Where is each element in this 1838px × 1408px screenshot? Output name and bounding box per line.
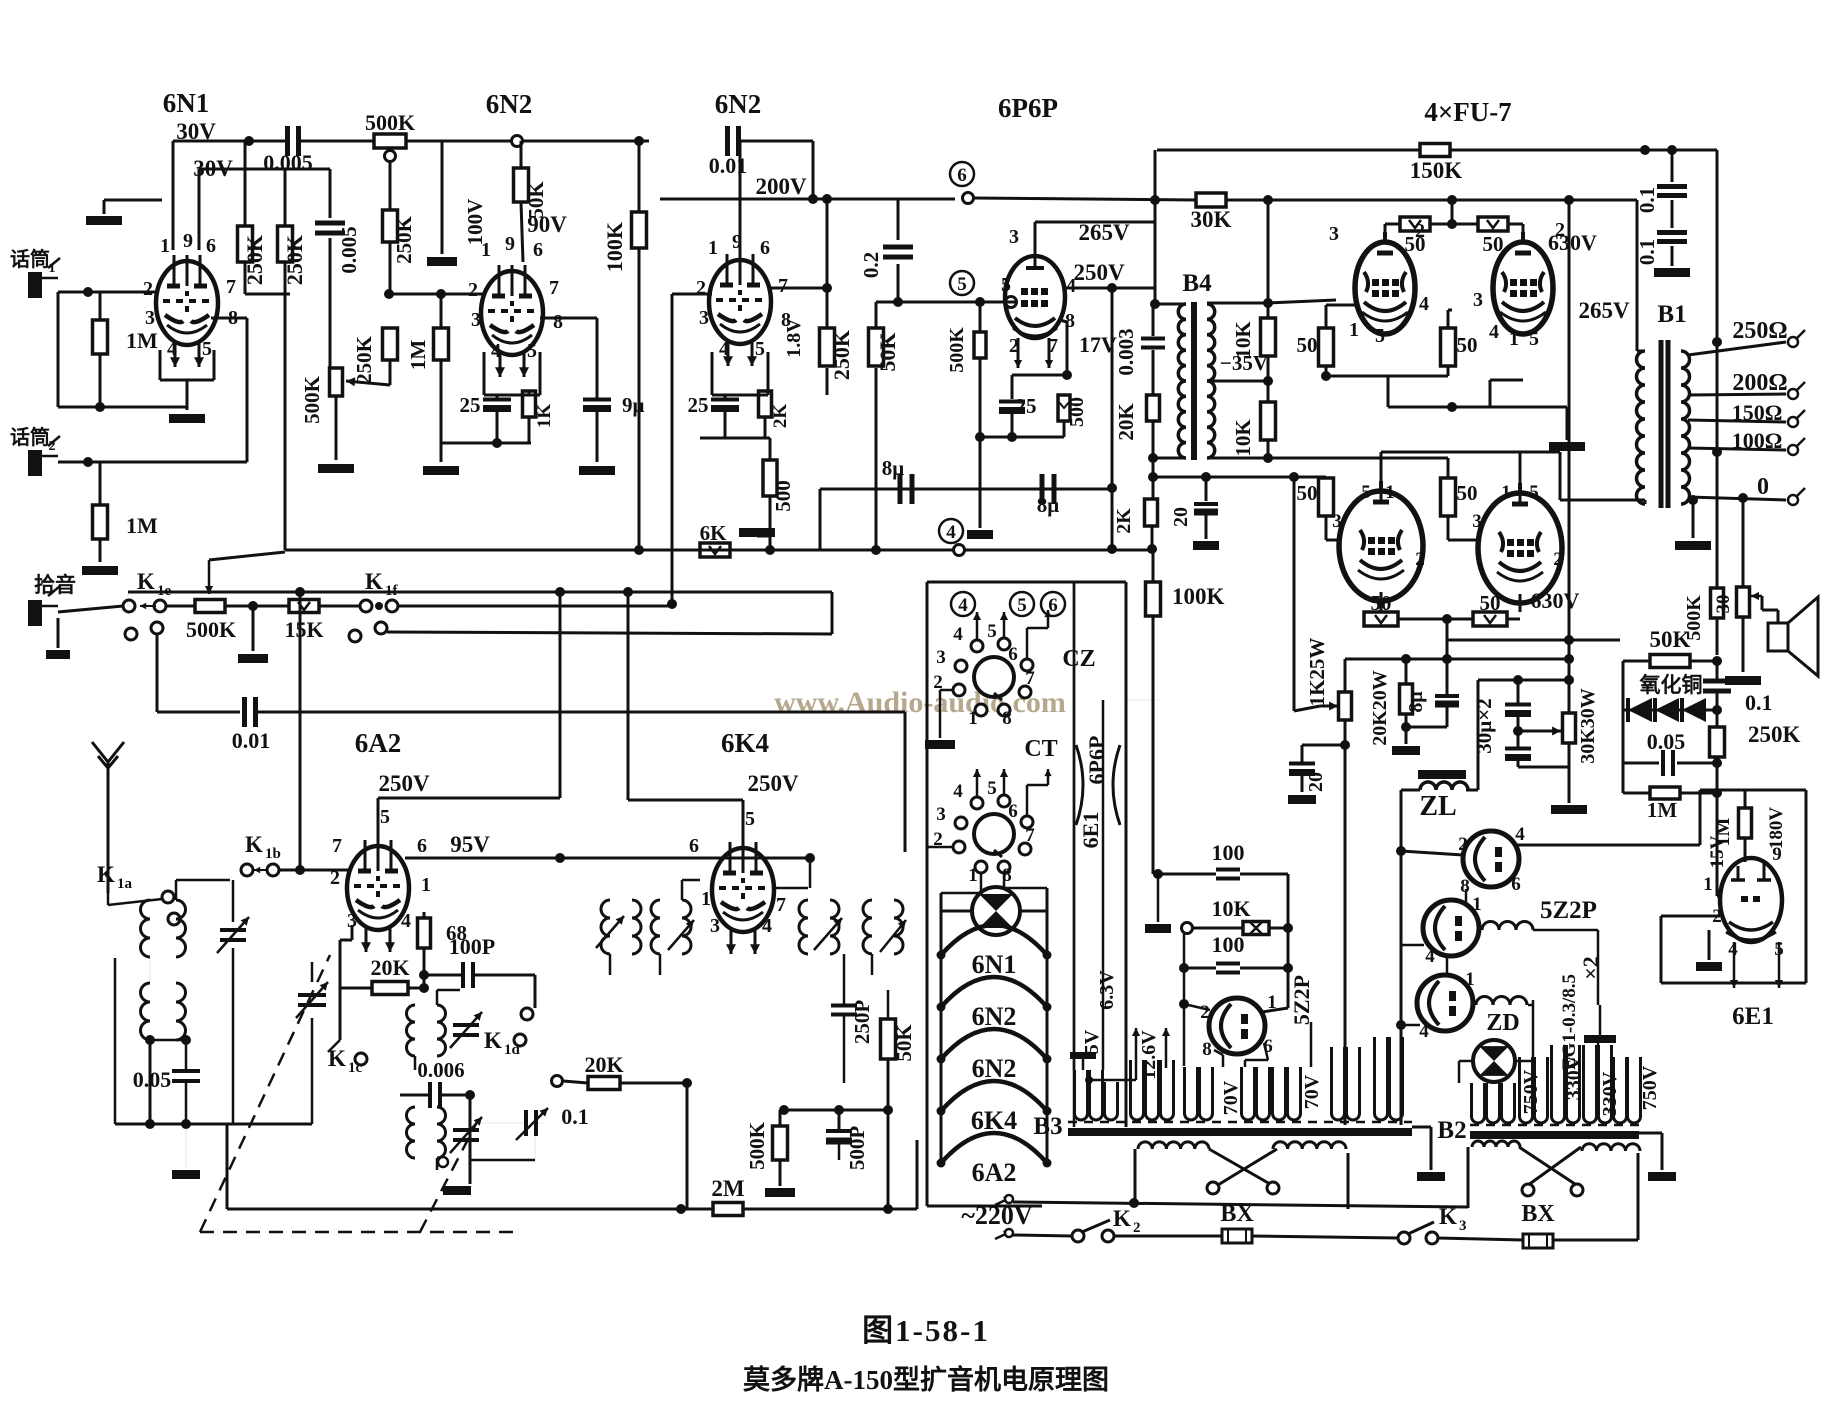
wire left rail feedback	[1622, 661, 1625, 793]
svg-text:10K: 10K	[1231, 419, 1255, 457]
resistor 250K first anode load	[238, 226, 253, 262]
svg-text:0.05: 0.05	[1647, 729, 1686, 754]
switch K1f lower	[349, 630, 361, 642]
svg-text:K: K	[365, 569, 383, 594]
svg-text:2: 2	[1133, 1220, 1141, 1236]
svg-text:1: 1	[160, 235, 170, 257]
svg-text:5: 5	[987, 621, 997, 642]
svg-text:5: 5	[202, 338, 212, 360]
svg-text:20K: 20K	[1114, 403, 1138, 441]
svg-text:4×FU-7: 4×FU-7	[1424, 97, 1511, 127]
resistor 250K grid upper	[383, 210, 398, 242]
svg-text:ZL: ZL	[1419, 791, 1456, 822]
svg-text:750V: 750V	[1520, 1069, 1542, 1114]
tube 5Z2P left	[1209, 998, 1265, 1054]
svg-text:3: 3	[1472, 511, 1482, 532]
svg-text:2: 2	[468, 279, 478, 301]
svg-text:0.006: 0.006	[417, 1058, 464, 1082]
ground rf	[226, 1124, 229, 1209]
wire grid 1	[58, 291, 158, 294]
svg-text:7: 7	[1025, 825, 1035, 846]
svg-text:2: 2	[696, 277, 706, 299]
svg-text:5: 5	[527, 340, 537, 362]
svg-text:3: 3	[1329, 223, 1339, 245]
svg-text:1b: 1b	[265, 846, 281, 862]
svg-text:K: K	[97, 862, 115, 887]
osc coil lower	[407, 1107, 416, 1158]
resistor 250K 6N2b plate	[820, 328, 835, 366]
svg-text:−35V: −35V	[1220, 351, 1268, 375]
svg-text:20K: 20K	[370, 955, 409, 980]
wire	[299, 140, 374, 143]
svg-text:5: 5	[987, 778, 997, 799]
antenna coil upper	[141, 900, 151, 957]
svg-text:5: 5	[1529, 328, 1539, 350]
antenna	[107, 762, 110, 805]
capacitor 20	[1302, 744, 1345, 747]
svg-text:6E1: 6E1	[1078, 812, 1103, 849]
svg-text:0.2: 0.2	[859, 252, 883, 278]
svg-text:EG1-0.3/8.5: EG1-0.3/8.5	[1559, 974, 1580, 1070]
svg-text:250K: 250K	[352, 335, 376, 384]
speaker	[1768, 623, 1788, 651]
svg-text:8: 8	[553, 311, 563, 333]
wires 6E1 frame	[1745, 789, 1806, 792]
svg-text:100K: 100K	[602, 222, 627, 272]
svg-text:K: K	[484, 1028, 502, 1053]
svg-text:100K: 100K	[1172, 584, 1225, 609]
svg-text:1.8V: 1.8V	[783, 318, 805, 358]
capacitor 0.1 upper	[1671, 150, 1674, 182]
svg-text:4: 4	[762, 915, 772, 937]
svg-text:0.003: 0.003	[1114, 328, 1138, 375]
resistor 250K	[1710, 727, 1725, 757]
ground 500K pot	[318, 464, 354, 473]
wire plate 6N2b	[770, 287, 827, 290]
svg-text:6: 6	[689, 835, 699, 857]
svg-text:150K: 150K	[1410, 158, 1463, 183]
switch K1e lower + 0.01 cap	[125, 628, 137, 640]
resistor 50 lower-right grid	[1441, 478, 1456, 516]
svg-text:1: 1	[968, 865, 978, 886]
svg-text:100Ω: 100Ω	[1732, 428, 1783, 453]
svg-text:0.1: 0.1	[1745, 690, 1773, 715]
svg-text:30: 30	[1713, 595, 1734, 614]
main tuning cap	[298, 993, 326, 997]
svg-text:100: 100	[1212, 932, 1245, 957]
wire bias rail	[285, 549, 1155, 552]
svg-text:4: 4	[1425, 946, 1435, 967]
svg-text:0.005: 0.005	[263, 150, 313, 175]
resistor 50 cathode lower-left	[1364, 612, 1398, 626]
svg-text:3: 3	[936, 647, 946, 668]
svg-text:4: 4	[719, 338, 729, 360]
socket CZ	[951, 592, 975, 616]
wire 6N1 plate to top rail	[172, 141, 175, 250]
svg-text:1a: 1a	[117, 876, 133, 892]
svg-text:7: 7	[549, 277, 559, 299]
svg-text:3: 3	[936, 804, 946, 825]
svg-text:200Ω: 200Ω	[1732, 370, 1787, 396]
ground B1 secondary	[1692, 500, 1695, 538]
dashed gang lines	[200, 955, 330, 1232]
svg-text:500K: 500K	[300, 375, 324, 424]
svg-text:4: 4	[1066, 275, 1076, 297]
resistor 50 cathode upper-right	[1441, 328, 1456, 366]
resistor 150K	[1420, 144, 1450, 157]
choke ZL	[1418, 770, 1466, 779]
wire grid 6N2b	[672, 293, 712, 296]
tube 5Z2P rect C	[1417, 975, 1473, 1031]
potentiometer 500K level	[330, 368, 343, 396]
svg-text:6: 6	[417, 835, 427, 857]
IF transformer left	[601, 900, 610, 954]
svg-text:5: 5	[755, 338, 765, 360]
resistor 50 grid right	[1478, 217, 1508, 231]
svg-text:250V: 250V	[378, 771, 430, 796]
resistor 500K feedback	[1716, 342, 1719, 588]
svg-text:20: 20	[1170, 507, 1192, 527]
svg-text:0.005: 0.005	[337, 226, 361, 273]
cathode 6N2b 25 2K	[711, 352, 714, 395]
capacitor 0.1 lower	[1671, 200, 1674, 228]
wire 265V to B4	[1034, 222, 1037, 258]
svg-text:5: 5	[1001, 274, 1011, 296]
svg-text:8μ: 8μ	[1405, 691, 1427, 713]
wire heater feeds	[1073, 582, 1076, 1127]
svg-text:50: 50	[1297, 481, 1318, 505]
svg-text:1: 1	[1509, 328, 1519, 350]
svg-text:8: 8	[1202, 1039, 1212, 1060]
svg-text:2: 2	[143, 278, 153, 300]
svg-text:2M: 2M	[711, 1176, 745, 1201]
svg-text:12.6V: 12.6V	[1138, 1030, 1160, 1080]
svg-text:1K: 1K	[534, 404, 555, 429]
svg-text:5: 5	[1361, 482, 1371, 503]
secondary B2 with cross	[1472, 1141, 1520, 1147]
svg-text:5: 5	[957, 274, 967, 295]
svg-text:1: 1	[421, 874, 431, 896]
svg-text:K: K	[245, 832, 263, 857]
svg-text:100: 100	[1212, 840, 1245, 865]
windings B3 primary	[1075, 1070, 1088, 1120]
svg-text:4: 4	[958, 595, 968, 616]
svg-text:180V: 180V	[1766, 807, 1787, 850]
tube 5Z2P rect B	[1423, 900, 1479, 956]
resistor 50 cathode upper-left	[1319, 328, 1334, 366]
svg-text:BX: BX	[1220, 1201, 1254, 1227]
svg-text:6K4: 6K4	[721, 728, 769, 758]
svg-text:1: 1	[1465, 969, 1475, 990]
svg-text:3: 3	[1459, 1218, 1467, 1234]
svg-text:0.1: 0.1	[1635, 187, 1659, 213]
svg-text:话筒: 话筒	[10, 425, 50, 449]
resistor 2K bias	[1145, 499, 1158, 526]
svg-text:6N1: 6N1	[972, 950, 1017, 979]
wire 30V second	[198, 169, 201, 250]
tube FU7 lower right	[1478, 493, 1562, 603]
svg-text:0.1: 0.1	[1635, 239, 1659, 265]
wire 250V riser 6A2	[559, 592, 562, 798]
cathode network 6N2 25 + 1K	[483, 352, 486, 395]
svg-text:1M: 1M	[126, 328, 158, 353]
svg-text:750V: 750V	[1639, 1065, 1661, 1110]
resistor 100K	[632, 212, 647, 248]
svg-text:50K: 50K	[1650, 627, 1691, 652]
capacitor 9u decoupling	[583, 398, 611, 402]
svg-text:9: 9	[183, 230, 193, 252]
svg-text:50K: 50K	[524, 181, 548, 219]
ground 1M	[440, 443, 443, 462]
svg-text:4: 4	[953, 781, 963, 802]
svg-text:6: 6	[957, 165, 967, 186]
wire grid 2	[58, 461, 247, 464]
svg-text:1: 1	[1385, 482, 1395, 503]
tube 6N1	[156, 261, 218, 345]
svg-text:500K: 500K	[365, 110, 415, 135]
svg-text:0.1: 0.1	[561, 1104, 589, 1129]
svg-text:4: 4	[491, 340, 501, 362]
ground shield 6N1	[104, 199, 162, 202]
wire 640 bus	[1446, 640, 1449, 659]
svg-text:100P: 100P	[449, 934, 495, 959]
svg-text:30K30W: 30K30W	[1577, 688, 1599, 764]
wire to 6E1	[1716, 793, 1719, 896]
jack ground 2	[57, 618, 60, 648]
capacitor 0.003	[1152, 304, 1155, 336]
svg-text:4: 4	[401, 910, 411, 932]
wire cathode bus upper	[1326, 375, 1448, 378]
wire B4 secondary bottom	[1207, 457, 1448, 460]
ground CZ	[940, 689, 953, 692]
tube FU7 upper left	[1355, 242, 1415, 334]
svg-text:3: 3	[699, 307, 709, 329]
svg-text:95V: 95V	[450, 832, 490, 857]
svg-text:7: 7	[332, 835, 342, 857]
tube 6E1	[1720, 858, 1782, 942]
svg-text:265V: 265V	[1578, 298, 1630, 323]
ground pot	[252, 606, 255, 651]
svg-text:25: 25	[460, 393, 481, 417]
svg-text:1: 1	[968, 708, 978, 729]
svg-text:5: 5	[1375, 325, 1385, 347]
svg-text:CT: CT	[1024, 736, 1057, 762]
svg-text:500K: 500K	[946, 327, 968, 373]
svg-text:1: 1	[1472, 894, 1482, 915]
svg-text:4: 4	[953, 624, 963, 645]
potentiometer 30	[1742, 498, 1745, 587]
svg-text:K: K	[1113, 1206, 1131, 1231]
svg-text:1: 1	[481, 239, 491, 261]
svg-text:3: 3	[471, 309, 481, 331]
resistor 1M horizontal	[1650, 787, 1680, 799]
svg-text:7: 7	[778, 275, 788, 297]
svg-text:图1-58-1: 图1-58-1	[862, 1313, 990, 1348]
diodes oxide	[1623, 709, 1715, 712]
wire HT to eye	[1514, 844, 1700, 847]
svg-text:1: 1	[701, 888, 711, 910]
svg-text:7: 7	[1025, 668, 1035, 689]
wire B4 to FU7 grids	[1268, 300, 1336, 303]
resistor 1M 6E1	[1739, 808, 1752, 838]
wire plate feed B4	[1154, 150, 1157, 304]
svg-text:6N2: 6N2	[972, 1054, 1017, 1083]
svg-text:4: 4	[946, 522, 956, 543]
svg-text:250V: 250V	[747, 771, 799, 796]
tube 5Z2P rect A	[1463, 831, 1519, 887]
svg-text:6: 6	[1048, 595, 1058, 616]
svg-text:20K: 20K	[584, 1052, 623, 1077]
cathode 6N1	[159, 350, 162, 380]
antenna coil lower	[141, 983, 151, 1040]
svg-text:20: 20	[1305, 772, 1327, 792]
svg-text:9: 9	[732, 231, 742, 253]
svg-text:4: 4	[1489, 321, 1499, 343]
svg-text:250V: 250V	[1073, 260, 1125, 285]
svg-text:6N1: 6N1	[163, 88, 210, 118]
svg-text:6A2: 6A2	[972, 1158, 1017, 1187]
svg-text:氧化铜: 氧化铜	[1640, 673, 1703, 697]
svg-text:B1: B1	[1657, 301, 1686, 328]
svg-text:6: 6	[1511, 874, 1521, 895]
svg-text:2K: 2K	[770, 404, 791, 429]
resistor 30K	[1196, 193, 1226, 207]
svg-text:500K: 500K	[186, 617, 236, 642]
wire screen rail 200V	[973, 198, 1196, 200]
resistor 20K B4	[1147, 395, 1160, 421]
ground top mid	[441, 141, 444, 254]
svg-text:B4: B4	[1182, 270, 1212, 297]
capacitor 0.2 coupling	[897, 199, 900, 240]
tube FU7 lower left	[1339, 491, 1423, 601]
capacitor 20 B4	[1205, 477, 1208, 501]
node 5 circled	[950, 271, 974, 295]
resistor 68	[418, 918, 431, 948]
resistor 1M input 1	[93, 320, 108, 354]
svg-text:8μ: 8μ	[1037, 493, 1060, 517]
wire grid 6N2	[389, 293, 484, 296]
svg-text:K: K	[1439, 1204, 1457, 1229]
svg-text:6N2: 6N2	[715, 89, 762, 119]
svg-text:6K4: 6K4	[971, 1106, 1017, 1135]
ground B2	[1639, 1132, 1662, 1135]
wire vertical to bias rail	[284, 462, 287, 550]
IF transformer right	[799, 900, 808, 954]
svg-text:6K: 6K	[700, 521, 728, 545]
svg-text:1: 1	[1501, 482, 1511, 503]
pilot lamp	[972, 887, 1020, 935]
resistor 250K grid lower	[383, 328, 398, 360]
svg-text:6N2: 6N2	[972, 1002, 1017, 1031]
wire top rail 150K	[1157, 149, 1420, 152]
svg-text:70V: 70V	[1301, 1074, 1323, 1109]
svg-text:150Ω: 150Ω	[1732, 400, 1783, 425]
svg-text:250K: 250K	[1748, 722, 1801, 747]
resistor 1M input 2	[93, 505, 108, 539]
svg-text:B3: B3	[1033, 1113, 1062, 1140]
svg-text:5V: 5V	[1081, 1029, 1103, 1054]
svg-text:6: 6	[760, 237, 770, 259]
resistor 500K top	[374, 134, 406, 148]
svg-text:3: 3	[145, 307, 155, 329]
svg-text:3: 3	[1473, 289, 1483, 311]
resistor 500 cathode	[763, 460, 777, 496]
svg-text:1M: 1M	[406, 340, 430, 371]
svg-text:25: 25	[1016, 394, 1037, 418]
svg-text:250K: 250K	[829, 330, 854, 380]
svg-text:K: K	[137, 569, 155, 594]
svg-text:0: 0	[1757, 474, 1769, 500]
svg-text:ZD: ZD	[1486, 1010, 1519, 1036]
svg-text:2: 2	[1415, 549, 1425, 570]
svg-text:9: 9	[1772, 844, 1782, 865]
svg-text:CZ: CZ	[1062, 646, 1095, 672]
resistor 10K lower	[1261, 402, 1276, 440]
tube 6N2 first	[481, 271, 543, 355]
svg-text:8: 8	[1002, 708, 1012, 729]
svg-text:5Z2P: 5Z2P	[1289, 975, 1314, 1025]
resistor 20K 6A2	[372, 982, 408, 995]
svg-text:拾音: 拾音	[34, 573, 76, 597]
svg-text:1: 1	[1349, 319, 1359, 341]
svg-text:500: 500	[771, 480, 795, 512]
wire lower plates to B1	[1380, 452, 1383, 500]
ground input 2	[82, 566, 118, 575]
tube 6A2	[347, 846, 409, 930]
svg-text:2: 2	[1553, 549, 1563, 570]
svg-text:1: 1	[1703, 874, 1713, 895]
ground 6N1 cathode	[169, 414, 205, 423]
heater chain	[940, 900, 943, 1163]
svg-text:50: 50	[1297, 333, 1318, 357]
resistor 50 lower-left grid	[1319, 478, 1334, 516]
svg-text:B2: B2	[1437, 1117, 1466, 1144]
ground 6E1	[1708, 930, 1711, 960]
heater arcs	[941, 925, 1047, 955]
svg-text:500K: 500K	[745, 1121, 769, 1170]
capacitor 0.005 coupling	[285, 126, 290, 156]
svg-text:20K20W: 20K20W	[1369, 670, 1391, 746]
rf ground rail	[115, 1123, 312, 1126]
svg-text:0.05: 0.05	[133, 1067, 172, 1092]
tube FU7 upper right	[1493, 242, 1553, 334]
wire 1110 bus	[784, 1109, 888, 1112]
svg-text:2K: 2K	[1113, 508, 1135, 534]
svg-text:4: 4	[167, 338, 177, 360]
svg-text:1M: 1M	[126, 513, 158, 538]
svg-text:25: 25	[688, 393, 709, 417]
socket box outline	[927, 581, 1126, 584]
svg-text:1: 1	[708, 237, 718, 259]
svg-text:4: 4	[1515, 824, 1525, 845]
capacitors 8u 8u	[820, 488, 1112, 491]
windings B2 primary	[1472, 1083, 1485, 1123]
wires FU7 tops	[1384, 224, 1387, 232]
svg-text:6: 6	[1008, 801, 1018, 822]
svg-text:9μ: 9μ	[622, 393, 645, 417]
resistor 50K plate 6N2	[514, 168, 529, 202]
resistor 250K second	[278, 226, 293, 262]
svg-text:50: 50	[1405, 232, 1426, 256]
node 4 circled	[939, 519, 963, 543]
svg-text:50: 50	[1483, 232, 1504, 256]
resistor 1M 6N2 grid	[434, 328, 449, 360]
ground upper FU7	[1566, 407, 1569, 440]
svg-text:5Z2P: 5Z2P	[1540, 897, 1597, 924]
svg-text:6P6P: 6P6P	[1084, 736, 1109, 785]
svg-text:10K: 10K	[1211, 896, 1250, 921]
resistor 6K	[700, 543, 730, 557]
